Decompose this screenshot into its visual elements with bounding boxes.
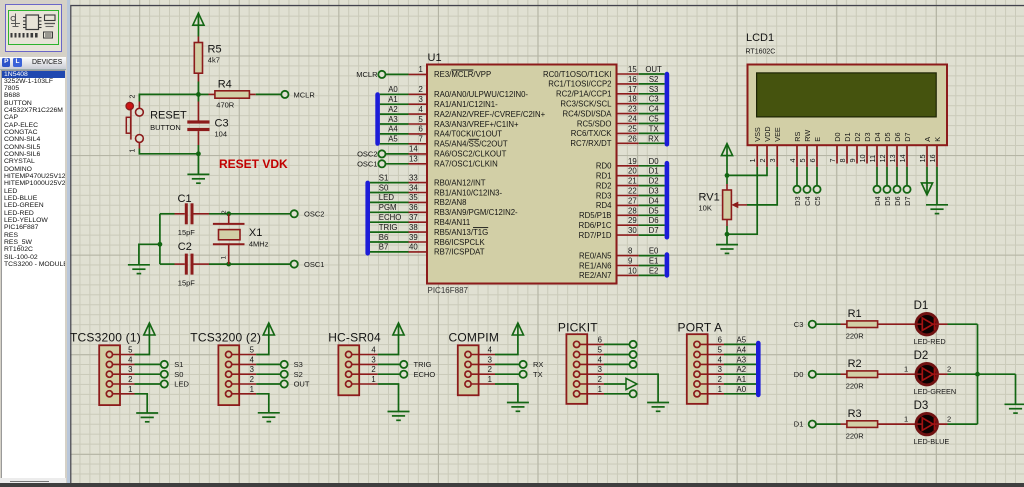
svg-text:D1: D1: [914, 300, 929, 312]
junction VDD node: [725, 173, 730, 178]
terminal D6: [893, 186, 900, 193]
wire pin 28 to bus net D5: [639, 214, 665, 216]
U1 pin 16 stub (RC1/T1OSI/CCP2): [617, 83, 639, 85]
mini preview: reset part: [11, 14, 20, 27]
wire bus to pin 36 net PGM: [370, 211, 409, 213]
terminal C4: [803, 186, 810, 193]
U1 pin 7 stub (RA5/AN4/SS/C2OUT): [409, 143, 428, 145]
wire D1 out: [948, 323, 978, 325]
PORT A pin 5 stub: [700, 354, 724, 356]
U1 pin 6 stub (RA4/T0CKI/C1OUT): [409, 133, 428, 135]
wire COMPIM to terminal RX: [495, 363, 519, 365]
terminal OSC2 (crystal): [291, 210, 298, 217]
microcontroller U1 PIC16F887 body: [427, 65, 617, 284]
wire TCS2 to terminal OUT: [256, 383, 280, 385]
PICKIT pin 2 stub: [580, 383, 604, 385]
wire LCD C5 to terminal: [816, 167, 818, 186]
wire LCD pin1 VSS to RV1 bottom: [727, 167, 757, 234]
U1 pin 2 stub (RA0/AN0/ULPWU/C12IN0-): [409, 93, 428, 95]
COMPIM pin circle 2: [465, 371, 471, 377]
U1 pin 1 stub (RE3/MCLR/VPP): [409, 73, 428, 75]
svg-text:4: 4: [250, 355, 255, 364]
svg-text:TCS3200 (1): TCS3200 (1): [70, 331, 141, 345]
wire C2 to OSC1 node: [194, 263, 210, 265]
svg-text:E0: E0: [649, 247, 659, 256]
svg-text:VSS: VSS: [753, 127, 762, 142]
wire PICKIT pin2 arrow: [604, 383, 626, 385]
power flag (HC-SR04): [393, 323, 404, 335]
svg-text:4: 4: [718, 355, 723, 364]
svg-text:19: 19: [628, 157, 637, 166]
svg-text:K: K: [933, 137, 942, 142]
wire bus to pin 35 net LED: [370, 201, 409, 203]
COMPIM pin 3 stub: [471, 363, 495, 365]
PICKIT pin 1 stub: [580, 393, 604, 395]
svg-text:RA2/AN2/VREF-/CVREF/C2IN+: RA2/AN2/VREF-/CVREF/C2IN+: [434, 110, 546, 119]
svg-text:39: 39: [409, 233, 418, 242]
wire LCD pin15 A to power flag: [926, 167, 928, 195]
L button: [13, 58, 21, 66]
svg-text:25: 25: [628, 124, 637, 133]
svg-text:RD4: RD4: [596, 201, 612, 210]
svg-text:RX: RX: [648, 134, 660, 143]
svg-text:RESET: RESET: [150, 109, 187, 121]
wire HC-SR04 pin1 to ground: [378, 384, 399, 412]
resistor R3: [847, 421, 878, 428]
U1 pin 14 stub (RA6/OSC2/CLKOUT): [409, 153, 428, 155]
PICKIT pin circle 2: [574, 381, 580, 387]
LCD1 pin 1 stub: [756, 146, 758, 167]
svg-text:3: 3: [768, 158, 777, 162]
svg-text:470R: 470R: [216, 101, 235, 110]
svg-text:5: 5: [419, 115, 424, 124]
terminal S3: [281, 361, 288, 368]
LCD1 pin 14 stub: [906, 146, 908, 167]
TCS3200 (2) pin 4 stub: [232, 363, 257, 365]
svg-text:D1: D1: [649, 167, 659, 176]
bus RD (D0..D7): [665, 161, 670, 240]
U1 pin 8 stub (RE0/AN5): [617, 255, 639, 257]
svg-text:LED-BLUE: LED-BLUE: [914, 437, 950, 446]
svg-text:D0: D0: [649, 157, 660, 166]
svg-text:E: E: [813, 137, 822, 142]
svg-text:RD3: RD3: [596, 191, 612, 200]
svg-text:1: 1: [488, 375, 492, 384]
wire PICKIT pin3 to ground: [604, 374, 658, 402]
power flag VDD (LCD): [721, 144, 732, 156]
U1 pin 25 stub (RC6/TX/CK): [617, 132, 639, 134]
PORT A pin circle 4: [694, 361, 700, 367]
svg-text:E2: E2: [649, 266, 659, 275]
svg-text:4: 4: [788, 158, 797, 162]
TCS3200 (2) pin circle 5: [226, 351, 232, 357]
U1 pin 4 stub (RA2/AN2/VREF-/CVREF/C2IN+): [409, 113, 428, 115]
TCS3200 (1) pin circle 3: [106, 371, 112, 377]
TCS3200 (1) pin circle 5: [106, 351, 112, 357]
wire TCS1 pin1 to ground: [135, 394, 148, 413]
wire LCD D7 to terminal: [906, 167, 908, 186]
svg-text:A3: A3: [388, 115, 398, 124]
svg-text:220R: 220R: [846, 431, 865, 440]
svg-text:LED-RED: LED-RED: [914, 337, 946, 346]
U1 pin 35 stub (RB2/AN8): [409, 201, 428, 203]
wire PORTA pin to bus net A4: [724, 354, 756, 356]
svg-text:A2: A2: [388, 105, 398, 114]
svg-text:6: 6: [808, 158, 817, 162]
svg-text:S1: S1: [379, 173, 389, 182]
svg-text:10: 10: [858, 154, 867, 162]
svg-text:TX: TX: [649, 124, 660, 133]
wire pin 18 to bus net C3: [639, 103, 665, 105]
wire TCS2 pin1 to ground: [256, 394, 269, 413]
svg-text:7: 7: [828, 158, 837, 162]
PORT A pin 6 stub: [700, 343, 724, 345]
U1 pin 28 stub (RD5/P1B): [617, 214, 639, 216]
svg-text:6: 6: [718, 335, 722, 344]
ground (RV1): [726, 234, 728, 244]
svg-text:40: 40: [409, 243, 418, 252]
svg-text:5: 5: [128, 346, 133, 355]
svg-text:2: 2: [758, 158, 767, 162]
svg-text:D6: D6: [893, 132, 902, 141]
terminal OSC1 (at U1): [378, 160, 385, 167]
ground (LED): [1005, 403, 1024, 405]
svg-text:C4: C4: [649, 105, 660, 114]
svg-text:26: 26: [628, 134, 637, 143]
terminal D0: [809, 371, 816, 378]
svg-text:RA3/AN3/VREF+/C1IN+: RA3/AN3/VREF+/C1IN+: [434, 120, 519, 129]
resistor R1: [847, 321, 878, 328]
junction reset node: [196, 92, 201, 97]
U1 pin 24 stub (RC5/SDO): [617, 123, 639, 125]
wire LED trunk: [977, 324, 979, 424]
svg-text:24: 24: [628, 115, 637, 124]
wire left rail to C2: [160, 263, 175, 265]
svg-text:RC3/SCK/SCL: RC3/SCK/SCL: [560, 100, 612, 109]
svg-text:D5: D5: [883, 197, 892, 206]
terminal OSC2 (at U1): [378, 150, 385, 157]
svg-text:D4: D4: [873, 197, 882, 206]
svg-text:RE2/AN7: RE2/AN7: [579, 271, 612, 280]
TCS3200 (2) pin 2 stub: [232, 383, 257, 385]
wire R2 to D2: [878, 373, 917, 375]
LCD1 body: [748, 65, 948, 146]
svg-text:D3: D3: [649, 187, 659, 196]
HC-SR04 pin circle 4: [346, 351, 352, 357]
terminal D5: [883, 186, 890, 193]
svg-text:2: 2: [718, 375, 722, 384]
wire bus to pin 37 net ECHO: [370, 221, 409, 223]
ground (PICKIT): [647, 402, 669, 404]
svg-text:4: 4: [598, 355, 603, 364]
svg-text:1: 1: [250, 385, 254, 394]
terminal LED: [161, 380, 168, 387]
U1 pin 23 stub (RC4/SDI/SDA): [617, 113, 639, 115]
wire LCD D3 to terminal: [796, 167, 798, 186]
svg-text:6: 6: [598, 335, 602, 344]
PORT A pin 1 stub: [700, 393, 724, 395]
svg-text:1: 1: [128, 385, 132, 394]
overline MCLR (pin1): [451, 69, 473, 71]
svg-text:13: 13: [409, 155, 418, 164]
svg-text:14: 14: [898, 154, 907, 162]
svg-text:34: 34: [409, 183, 418, 192]
terminal MCLR (at U1): [378, 71, 385, 78]
svg-text:R1: R1: [848, 308, 862, 320]
arrow terminal (PICKIT pin2): [626, 378, 637, 389]
svg-text:30: 30: [628, 226, 637, 235]
svg-text:C2: C2: [178, 241, 192, 253]
svg-text:LED: LED: [379, 193, 395, 202]
svg-text:10: 10: [628, 266, 637, 275]
svg-text:RE0/AN5: RE0/AN5: [579, 251, 612, 260]
terminal ECHO: [400, 371, 407, 378]
TCS3200 (1) pin circle 2: [106, 381, 112, 387]
svg-text:D6: D6: [649, 216, 659, 225]
COMPIM pin 2 stub: [471, 373, 495, 375]
wire bus to pin 3 net A1: [380, 103, 409, 105]
svg-text:RC2/P1A/CCP1: RC2/P1A/CCP1: [556, 90, 611, 99]
wire PORTA pin to bus net A0: [724, 393, 756, 395]
LCD1 pin 4 stub: [796, 146, 798, 167]
svg-text:RA4/T0CKI/C1OUT: RA4/T0CKI/C1OUT: [434, 130, 502, 139]
svg-text:A4: A4: [737, 346, 747, 355]
svg-text:RC4/SDI/SDA: RC4/SDI/SDA: [563, 109, 613, 118]
PORT A pin 2 stub: [700, 383, 724, 385]
svg-text:RD1: RD1: [596, 172, 612, 181]
svg-text:RX: RX: [533, 360, 543, 369]
U1 pin 30 stub (RD7/P1D): [617, 234, 639, 236]
LED D1: [916, 314, 937, 335]
PORT A pin circle 1: [694, 391, 700, 397]
svg-text:3: 3: [371, 355, 375, 364]
U1 pin 38 stub (RB5/AN13/T1G): [409, 231, 428, 233]
U1 pin 37 stub (RB4/AN11): [409, 221, 428, 223]
connector PORT A body: [687, 334, 708, 404]
wire pin 19 to bus net D0: [639, 165, 665, 167]
svg-text:D5: D5: [883, 132, 892, 141]
svg-text:X1: X1: [249, 227, 262, 239]
svg-text:35: 35: [409, 193, 418, 202]
svg-text:8: 8: [628, 247, 632, 256]
TCS3200 (1) pin 1 stub: [113, 393, 135, 395]
wire pin 30 to bus net D7: [639, 234, 665, 236]
svg-text:A4: A4: [388, 125, 398, 134]
PORT A pin 3 stub: [700, 373, 724, 375]
svg-text:E1: E1: [649, 257, 659, 266]
wire TCS2 to terminal S3: [256, 363, 280, 365]
terminal (PICKIT): [630, 361, 637, 368]
resistor R2: [847, 371, 878, 378]
U1 pin 15 stub (RC0/T1OSO/T1CKI): [617, 73, 639, 75]
wire HC-SR04 to terminal ECHO: [378, 373, 400, 375]
HC-SR04 pin circle 3: [346, 361, 352, 367]
PICKIT pin circle 4: [574, 361, 580, 367]
wire C1 to OSC2 node: [194, 213, 210, 215]
TCS3200 (1) pin circle 4: [106, 361, 112, 367]
terminal TRIG: [400, 361, 407, 368]
power flag (COMPIM): [512, 323, 523, 335]
wire PICKIT to terminal: [604, 343, 629, 345]
ground (HC-SR04): [388, 411, 410, 413]
svg-text:C5: C5: [649, 115, 660, 124]
ground (reset): [197, 154, 199, 175]
PICKIT pin circle 6: [574, 341, 580, 347]
ground (LCD K): [926, 204, 948, 206]
svg-text:S2: S2: [294, 370, 303, 379]
capacitor C3: [187, 120, 209, 123]
U1 pin 39 stub (RB6/ICSPCLK): [409, 241, 428, 243]
LCD1 pin 10 stub: [866, 146, 868, 164]
svg-text:D4: D4: [873, 132, 882, 141]
U1 pin 36 stub (RB3/AN9/PGM/C12IN2-): [409, 211, 428, 213]
U1 pin 3 stub (RA1/AN1/C12IN1-): [409, 103, 428, 105]
U1 pin 9 stub (RE1/AN6): [617, 265, 639, 267]
wire PORTA pin to bus net A3: [724, 363, 756, 365]
svg-text:1: 1: [221, 256, 228, 260]
connector HC-SR04 body: [338, 345, 359, 395]
wire bus to pin 2 net A0: [380, 93, 409, 95]
svg-text:MCLR: MCLR: [294, 90, 316, 99]
svg-text:220R: 220R: [846, 331, 865, 340]
svg-text:RD5/P1B: RD5/P1B: [579, 211, 612, 220]
svg-text:33: 33: [409, 173, 418, 182]
svg-text:D6: D6: [893, 197, 902, 206]
PICKIT pin circle 1: [574, 391, 580, 397]
svg-text:220R: 220R: [846, 381, 865, 390]
schematic overview preview box: [5, 4, 62, 52]
svg-text:S0: S0: [174, 370, 183, 379]
svg-text:TCS3200 (2): TCS3200 (2): [190, 331, 261, 345]
svg-text:RD7/P1D: RD7/P1D: [579, 231, 612, 240]
TCS3200 (2) pin circle 1: [226, 391, 232, 397]
svg-text:2: 2: [129, 95, 136, 99]
svg-text:S3: S3: [649, 85, 659, 94]
wire PORTA pin to bus net A5: [724, 343, 756, 345]
capacitor C1: [185, 203, 188, 224]
svg-text:2: 2: [419, 85, 423, 94]
svg-text:VEE: VEE: [773, 127, 782, 142]
wire D3 out: [948, 423, 978, 425]
power flag (TCS2): [263, 323, 274, 335]
svg-text:4MHz: 4MHz: [249, 240, 269, 249]
PORT A pin circle 5: [694, 351, 700, 357]
svg-text:4k7: 4k7: [208, 56, 220, 65]
bus RE (E0..E2): [665, 252, 670, 277]
svg-text:2: 2: [947, 365, 951, 374]
svg-text:RB6/ICSPCLK: RB6/ICSPCLK: [434, 238, 485, 247]
LCD1 pin 11 stub: [876, 146, 878, 167]
wire TCS1 pin5 to power: [135, 323, 150, 355]
svg-text:S0: S0: [379, 183, 389, 192]
svg-text:LED-GREEN: LED-GREEN: [914, 387, 957, 396]
crystal X1: [228, 214, 230, 224]
svg-text:A1: A1: [388, 95, 398, 104]
svg-text:5: 5: [718, 346, 723, 355]
svg-text:D4: D4: [649, 196, 660, 205]
TCS3200 (1) pin 2 stub: [113, 383, 135, 385]
svg-text:1: 1: [904, 415, 908, 424]
svg-text:B6: B6: [379, 233, 389, 242]
svg-text:RD2: RD2: [596, 181, 612, 190]
wire TCS1 to terminal S1: [135, 363, 161, 365]
svg-text:PGM: PGM: [379, 203, 397, 212]
U1 pin 21 stub (RD2): [617, 185, 639, 187]
wire PORTA pin to bus net A1: [724, 383, 756, 385]
svg-text:COMPIM: COMPIM: [449, 331, 500, 345]
svg-text:A3: A3: [737, 355, 747, 364]
svg-text:RD0: RD0: [596, 162, 612, 171]
wire C3 to lower node: [197, 131, 199, 145]
wire TCS2 pin5 to power: [256, 323, 269, 355]
HC-SR04 pin circle 1: [346, 381, 352, 387]
svg-text:RA1/AN1/C12IN1-: RA1/AN1/C12IN1-: [434, 100, 498, 109]
wire PICKIT pin1 to terminal: [604, 393, 629, 395]
svg-text:U1: U1: [428, 52, 442, 64]
terminal TX: [520, 371, 527, 378]
U1 pin 19 stub (RD0): [617, 165, 639, 167]
svg-text:LCD1: LCD1: [746, 32, 774, 44]
svg-text:RB0/AN12/INT: RB0/AN12/INT: [434, 178, 486, 187]
resistor R5: [194, 43, 202, 74]
wire bus to pin 6 net A4: [380, 133, 409, 135]
svg-text:1: 1: [419, 65, 423, 74]
junction X1 top: [226, 211, 231, 216]
PICKIT pin 6 stub: [580, 343, 604, 345]
svg-text:TRIG: TRIG: [414, 360, 432, 369]
svg-text:C3: C3: [794, 320, 804, 329]
svg-text:RA5/AN4/SS/C2OUT: RA5/AN4/SS/C2OUT: [434, 140, 508, 149]
svg-text:R2: R2: [848, 358, 862, 370]
power flag VCC (reset): [193, 13, 204, 25]
svg-text:1: 1: [598, 385, 602, 394]
junction X1 bottom: [226, 262, 231, 267]
wire LCD pin16 K to ground: [936, 167, 938, 205]
svg-text:2: 2: [128, 375, 132, 384]
svg-text:RB7/ICSPDAT: RB7/ICSPDAT: [434, 248, 485, 257]
svg-text:D3: D3: [863, 132, 872, 141]
svg-text:D0: D0: [833, 132, 842, 141]
svg-text:11: 11: [868, 155, 877, 163]
svg-text:15: 15: [918, 154, 927, 162]
svg-text:D3: D3: [914, 400, 929, 412]
COMPIM pin circle 4: [465, 351, 471, 357]
wire node to C3: [197, 94, 199, 101]
svg-text:OSC1: OSC1: [357, 160, 377, 169]
svg-text:RA0/AN0/ULPWU/C12IN0-: RA0/AN0/ULPWU/C12IN0-: [434, 90, 528, 99]
TCS3200 (2) pin 1 stub: [232, 393, 257, 395]
svg-text:RD6/P1C: RD6/P1C: [579, 221, 612, 230]
svg-text:1: 1: [129, 149, 136, 153]
terminal C3: [809, 321, 816, 328]
PICKIT pin 4 stub: [580, 363, 604, 365]
wire TCS2 to terminal S2: [256, 373, 280, 375]
wire TCS1 to terminal LED: [135, 383, 161, 385]
svg-text:D1: D1: [843, 132, 852, 141]
ground (crystal): [128, 264, 150, 266]
TCS3200 (1) pin 4 stub: [113, 363, 135, 365]
terminal OSC1 (crystal): [291, 261, 298, 268]
wire R1 to D1: [878, 323, 917, 325]
terminal (PICKIT pin1): [630, 390, 637, 397]
mini preview: lcd: [45, 15, 56, 21]
U1 pin 27 stub (RD4): [617, 204, 639, 206]
svg-text:15pF: 15pF: [178, 228, 196, 237]
wire bus to pin 38 net TRIG: [370, 231, 409, 233]
U1 pin 33 stub (RB0/AN12/INT): [409, 182, 428, 184]
svg-text:RC1/T1OSI/CCP2: RC1/T1OSI/CCP2: [548, 80, 611, 89]
svg-text:8: 8: [838, 158, 847, 162]
